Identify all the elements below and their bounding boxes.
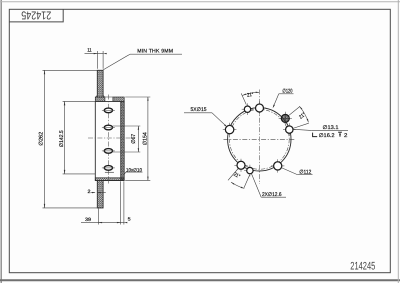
section: bolt hole contour near bottom strip — [105, 171, 114, 173]
h4 hole hatched upper-right — [279, 117, 292, 119]
svg-text:21°: 21° — [247, 92, 254, 99]
svg-text:11: 11 — [87, 48, 92, 54]
dimension D262 line with arrows — [44, 70, 46, 208]
dimension D154 line with arrows — [147, 97, 149, 180]
dimension 39 line with arrows — [81, 222, 125, 224]
svg-text:2: 2 — [88, 189, 91, 195]
svg-text:∅67: ∅67 — [131, 134, 137, 144]
dimension 11 line and arrows — [85, 53, 104, 55]
svg-text:2: 2 — [344, 133, 347, 139]
dimension 5 arrow — [124, 222, 127, 223]
section: top bar base flare right — [103, 95, 105, 97]
leader 10xD10 — [124, 172, 126, 174]
dimension D154 extension lines — [125, 96, 150, 98]
leader 5XD15 — [184, 112, 212, 114]
centerline: bolt holes vertical in section — [107, 95, 109, 184]
angular dimension 21 bottom-left — [228, 169, 238, 181]
dimension 39 and 5 extension lines — [97, 209, 99, 225]
leader D120 — [279, 93, 294, 95]
svg-text:5X∅15: 5X∅15 — [191, 107, 207, 113]
title box top-left — [9, 9, 63, 22]
section: bolt hole gap in top strip — [105, 96, 113, 98]
svg-text:∅112: ∅112 — [299, 170, 311, 176]
centerline: vertical axis of face view — [258, 90, 260, 185]
svg-text:∅262: ∅262 — [39, 132, 45, 146]
section: bottom flange strip hatched — [95, 178, 124, 181]
section: top hat flange strip hatched left part — [95, 97, 105, 101]
scan page edge bottom — [0, 279, 400, 281]
dimension D142.5 extension bottom — [63, 173, 96, 175]
bolt hole oval 3 in section — [104, 149, 112, 154]
svg-text:214245: 214245 — [21, 9, 51, 21]
section: bottom friction ring bar hatched — [97, 181, 103, 208]
section: top bar base flare left — [96, 95, 98, 97]
leader D112 — [281, 168, 297, 175]
dimension D67 line with arrows — [137, 126, 139, 152]
svg-text:39: 39 — [85, 217, 91, 223]
leader MIN THK 9MM — [103, 54, 130, 70]
scan page edge left — [0, 0, 2, 283]
bolt hole oval 1 in section — [104, 108, 112, 113]
dimension 2 lines and arrows — [91, 192, 95, 194]
angular dimension 21 top — [241, 93, 246, 104]
bolt hole oval 2 in section — [104, 125, 112, 130]
dimension D67 extension lines — [113, 125, 141, 127]
svg-text:2X∅12.6: 2X∅12.6 — [262, 192, 282, 198]
h8 hole D12.6 bottom-left — [244, 170, 256, 172]
angular dimension 21 right — [288, 107, 299, 116]
svg-text:∅154: ∅154 — [142, 132, 148, 145]
svg-text:∅120: ∅120 — [282, 89, 292, 95]
h3 bolt hole D15 left — [223, 129, 237, 131]
svg-text:∅142.5: ∅142.5 — [59, 130, 65, 147]
bolt hole oval 4 in section — [104, 166, 112, 171]
scan page edge right — [397, 0, 399, 283]
svg-text:∅16.2: ∅16.2 — [319, 133, 335, 139]
section: top friction ring bar hatched — [97, 70, 103, 97]
h5 hole D13.1 right — [283, 129, 296, 131]
svg-text:MIN THK 9MM: MIN THK 9MM — [137, 48, 173, 54]
dimension D262 extension top — [43, 69, 98, 71]
dimension D262 extension bottom — [43, 207, 104, 209]
leader D13.1 counterbore — [293, 129, 311, 130]
dimension D142.5 line with arrows — [64, 101, 66, 173]
bolt circle D112 dash-dot — [229, 109, 289, 169]
note counterbore D16.2 depth 2 text — [313, 133, 318, 137]
h1 bolt hole top D15 — [253, 107, 266, 109]
leader 2XD12.6 — [252, 174, 262, 197]
centerline: horizontal axis of face view — [224, 138, 296, 140]
scan page edge top — [0, 1, 400, 3]
h2 hole D12.6 upper-left — [242, 108, 254, 110]
section: hat body outline — [95, 101, 124, 180]
dimension D142.5 extension top — [63, 100, 96, 102]
centerline: disc axis horizontal — [88, 137, 132, 139]
svg-text:5: 5 — [128, 216, 131, 222]
svg-text:214245: 214245 — [350, 261, 375, 273]
dimension 11 extension lines — [96, 51, 98, 69]
svg-text:∅13.1: ∅13.1 — [323, 125, 339, 131]
bolt circle D120 solid — [228, 108, 291, 171]
section: mounting plate hatched — [121, 101, 125, 180]
h6 bolt hole D15 lower-right — [271, 165, 284, 167]
section: top hat flange strip hatched right part — [113, 97, 124, 101]
svg-text:10x∅10: 10x∅10 — [126, 167, 142, 173]
part number 214245 rotated 180 in title box — [21, 9, 51, 21]
h7 bolt hole D15 lower-left — [234, 164, 247, 166]
